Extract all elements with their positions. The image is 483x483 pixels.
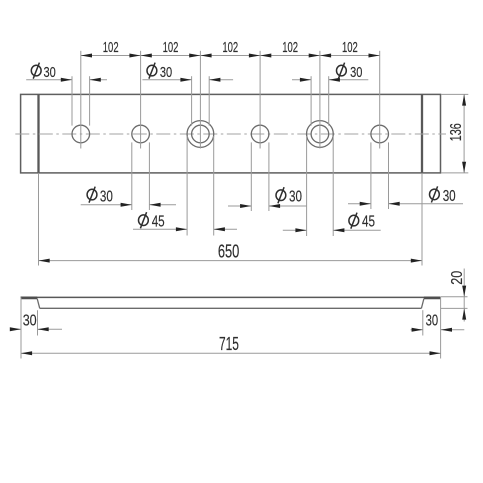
hole 6 (371, 125, 389, 143)
svg-text:102: 102 (282, 40, 298, 56)
svg-text:136: 136 (448, 123, 465, 141)
dia30 top dim hole3 (142, 79, 233, 81)
profile top edge (21, 296, 441, 298)
dia30 top dim hole5 (292, 79, 368, 81)
650 dim line (39, 260, 423, 262)
svg-text:30: 30 (426, 312, 439, 329)
hole edge extension lines, bottom dims (132, 136, 389, 236)
dia30 bottom dim hole6 (348, 203, 463, 205)
profile right chamfer (421, 299, 424, 309)
svg-text:102: 102 (163, 40, 179, 56)
102 labels (103, 40, 358, 56)
136 dim (441, 94, 468, 172)
svg-text:102: 102 (342, 40, 358, 56)
svg-text:30: 30 (100, 188, 113, 205)
svg-text:30: 30 (443, 188, 456, 205)
dia45 label hole3 (139, 212, 165, 230)
hole center extension lines (81, 51, 380, 149)
715 dim (21, 352, 441, 354)
dia30 bottom dim hole2 (81, 204, 176, 206)
dia30 label bottom hole2 (87, 187, 113, 206)
hole 3 counterbore (187, 121, 214, 148)
profile left chamfer (37, 299, 40, 309)
dia45 label hole5 (349, 213, 375, 231)
plate outline (top view) (21, 94, 441, 172)
profile left edge + extension (20, 298, 22, 359)
svg-text:102: 102 (103, 40, 119, 56)
dia30 label bottom hole4 (276, 187, 302, 205)
20 dim (441, 269, 468, 322)
dia30 bottom dim hole4 (228, 205, 307, 207)
30 left dim (11, 310, 63, 335)
svg-text:45: 45 (362, 214, 375, 231)
dia45 dim hole3 (133, 228, 237, 230)
hole 5 counterbore (307, 121, 334, 148)
profile right edge + extension (440, 298, 442, 359)
hole edge extension lines, top dims (72, 76, 329, 125)
svg-text:45: 45 (152, 213, 165, 230)
hole 3 inner (192, 125, 210, 143)
profile left end thick edge (21, 296, 38, 299)
svg-text:30: 30 (350, 65, 362, 81)
right step line (thick) (421, 94, 423, 172)
svg-text:20: 20 (449, 271, 466, 285)
profile bottom line (40, 307, 422, 309)
hole 2 (132, 125, 150, 143)
profile right end thick edge (424, 296, 441, 299)
dia45 dim hole5 (283, 229, 381, 231)
svg-text:715: 715 (219, 333, 239, 354)
svg-text:102: 102 (222, 40, 238, 56)
dia30 label bottom hole6 (430, 186, 456, 205)
svg-text:650: 650 (218, 240, 240, 261)
dia30 label top hole3 (147, 63, 172, 81)
hole 1 (72, 125, 90, 143)
left step line (thick) (37, 94, 39, 172)
hole 4 (251, 125, 269, 143)
hole 5 inner (311, 125, 329, 143)
dia30 label top hole1 (31, 63, 55, 81)
dia30 label top hole5 (337, 63, 363, 81)
650 extension lines (39, 173, 423, 266)
svg-text:30: 30 (160, 65, 172, 81)
dia30 top dim hole1 (26, 79, 107, 81)
102 chain dimension line (81, 55, 380, 57)
centerline (15, 133, 446, 135)
svg-text:30: 30 (43, 65, 55, 81)
102 chain arrows (81, 54, 380, 58)
svg-text:30: 30 (23, 312, 37, 329)
svg-text:30: 30 (289, 189, 302, 206)
30 right dim (411, 310, 465, 335)
